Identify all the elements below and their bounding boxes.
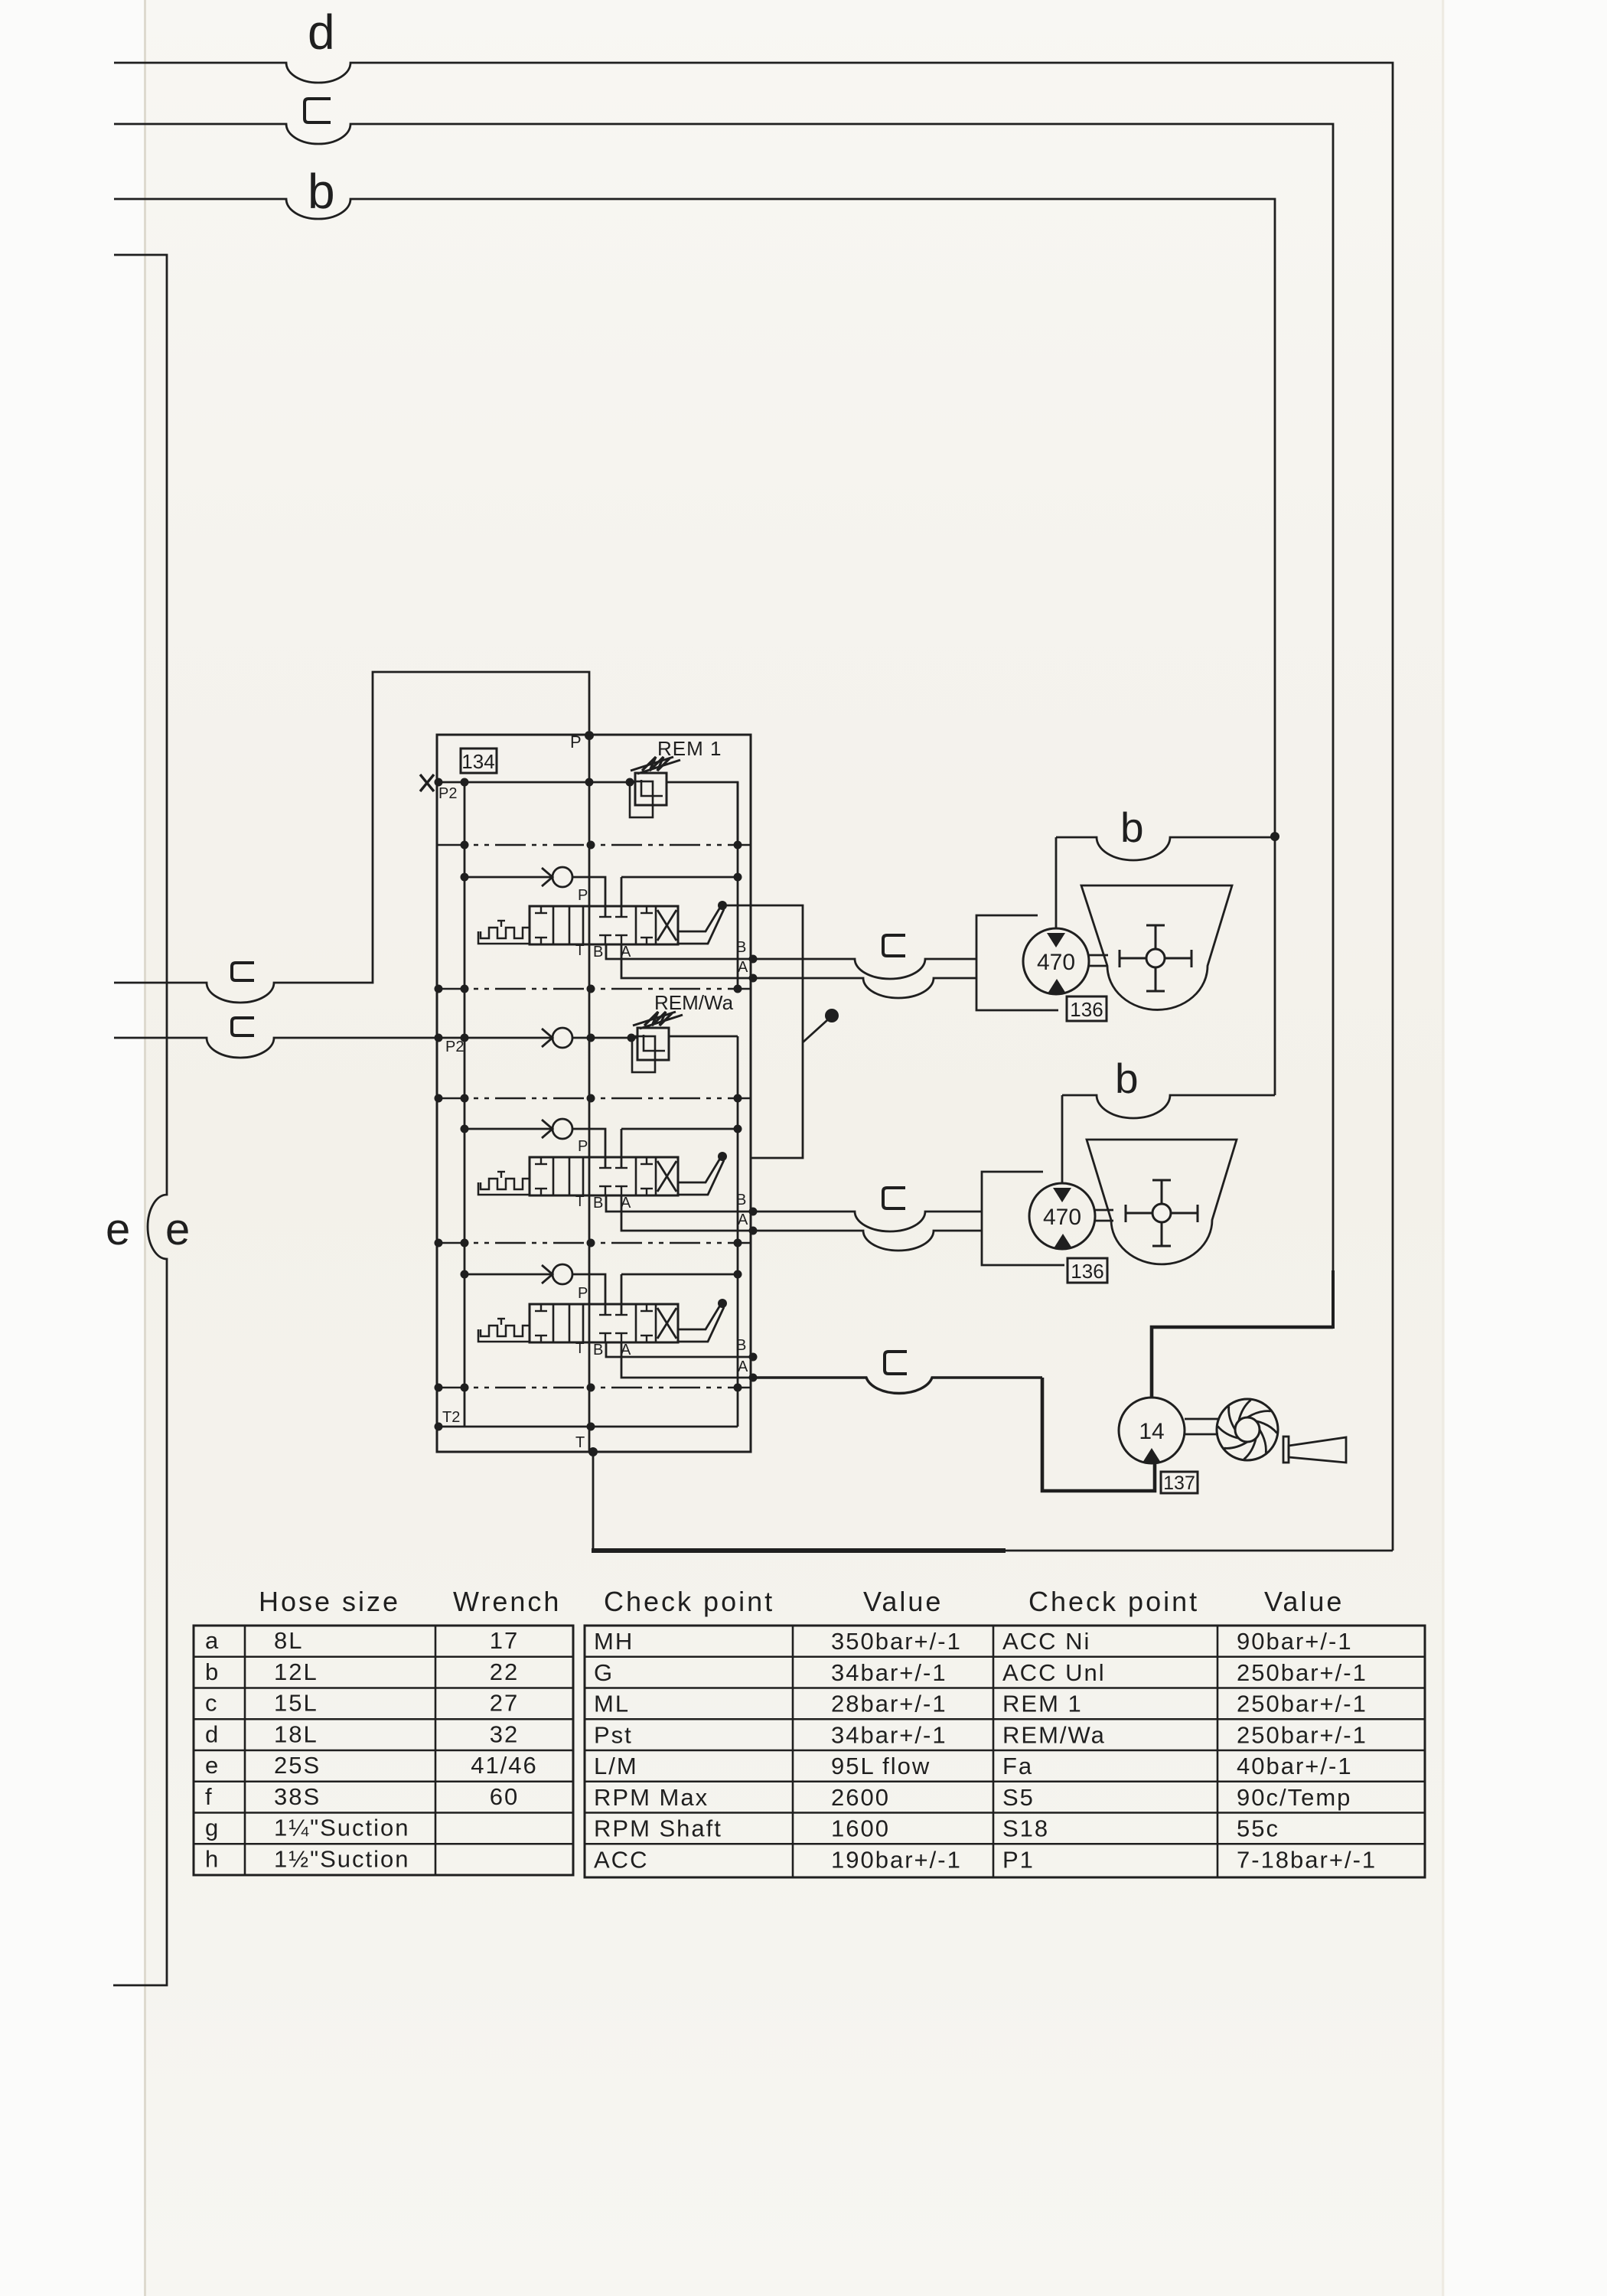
port P2 top, plugged (X symbol) — [420, 775, 434, 791]
svg-text:350bar+/-1: 350bar+/-1 — [831, 1628, 962, 1655]
section 3 work port A — [621, 1342, 753, 1378]
svg-text:T: T — [575, 1434, 585, 1451]
motor 1 shaft — [1089, 954, 1108, 957]
directional valve section 3 spool body — [530, 1304, 678, 1342]
svg-text:b: b — [308, 164, 335, 219]
wire: REM/Wa outlet to tank rail — [669, 1035, 738, 1038]
section 3 hand lever — [678, 1304, 721, 1329]
svg-text:G: G — [594, 1659, 614, 1686]
node P (block inlet) — [585, 731, 594, 740]
motor 2 mounting box — [982, 1172, 1064, 1265]
svg-text:Check point: Check point — [604, 1586, 774, 1617]
svg-text:134: 134 — [461, 750, 494, 773]
section 3 spool X position — [657, 1308, 676, 1339]
svg-text:Wrench: Wrench — [453, 1586, 561, 1617]
label c2 — [232, 1018, 254, 1035]
svg-text:137: 137 — [1163, 1473, 1195, 1494]
motor 1 axle cross — [1120, 957, 1191, 960]
svg-text:P: P — [578, 1285, 588, 1302]
hose to motor 1 (A) with crossing arc — [753, 978, 976, 998]
section 3 work port B — [606, 1342, 753, 1357]
svg-text:14: 14 — [1139, 1419, 1164, 1444]
svg-text:Pst: Pst — [594, 1721, 633, 1748]
svg-text:Value: Value — [863, 1586, 943, 1617]
svg-text:B: B — [736, 939, 746, 956]
svg-text:REM/Wa: REM/Wa — [1002, 1721, 1106, 1748]
svg-text:P1: P1 — [1002, 1846, 1035, 1873]
svg-text:S5: S5 — [1002, 1784, 1035, 1811]
section 1 work port A — [621, 944, 753, 978]
svg-text:90bar+/-1: 90bar+/-1 — [1237, 1628, 1353, 1655]
wire: tank return from valve T to right frame (suction thick part) — [592, 1452, 595, 1551]
svg-text:60: 60 — [490, 1783, 519, 1810]
section 1 hand lever — [678, 906, 721, 931]
svg-text:e: e — [205, 1752, 218, 1779]
REM/Wa spring/arrow adjuster — [633, 1012, 676, 1026]
section 1 spool X position — [657, 910, 676, 941]
svg-text:7-18bar+/-1: 7-18bar+/-1 — [1237, 1846, 1377, 1873]
label c1 — [232, 963, 254, 980]
svg-text:8L: 8L — [274, 1627, 303, 1654]
section 2 return spring — [481, 1179, 530, 1189]
svg-text:136: 136 — [1070, 998, 1103, 1021]
wire e (suction line, left frame) with loop arc — [113, 255, 167, 1985]
svg-text:A: A — [738, 959, 748, 976]
svg-text:Check point: Check point — [1028, 1586, 1199, 1617]
svg-text:e: e — [165, 1205, 190, 1254]
air blast cone — [1283, 1437, 1289, 1463]
pilot dash-dot rail 4 — [437, 1242, 750, 1244]
tank rail (vertical, right inner, upper segment) — [737, 782, 739, 989]
svg-text:f: f — [205, 1783, 212, 1810]
svg-text:T: T — [575, 943, 585, 959]
svg-text:470: 470 — [1043, 1205, 1081, 1230]
svg-text:P2: P2 — [438, 785, 457, 802]
wire c2: second pump supply hose to valve P2 with crossing arc — [114, 1038, 437, 1058]
svg-text:RPM Max: RPM Max — [594, 1784, 709, 1811]
wire: b hose of motor 2 with crossing arc — [1062, 1095, 1275, 1118]
svg-text:P: P — [570, 732, 582, 752]
svg-text:B: B — [593, 1195, 603, 1212]
section 2 work port B — [606, 1195, 753, 1212]
directional valve section 1: feed line with check valve — [464, 876, 552, 879]
svg-text:34bar+/-1: 34bar+/-1 — [831, 1721, 947, 1748]
svg-text:T: T — [575, 1194, 585, 1210]
linkage pivot lever with knob — [803, 1020, 827, 1042]
svg-text:a: a — [205, 1627, 219, 1654]
wire: section 3 tank pilot — [621, 1274, 738, 1315]
motor 1 mounting box — [976, 915, 1058, 1010]
wire: section 1 tank pilot — [621, 877, 738, 917]
label box 137 — [1161, 1472, 1198, 1493]
svg-text:250bar+/-1: 250bar+/-1 — [1237, 1659, 1367, 1686]
wire c1: pump supply hose to valve P with crossing arc — [114, 672, 589, 1003]
hose c to motor 2 (B) with crossing arc — [753, 1212, 982, 1231]
pilot dash-dot rail 1 — [437, 844, 750, 846]
section 2 hand lever — [678, 1157, 721, 1182]
label c (fan pump hose) — [885, 1352, 907, 1374]
motor 1 (470) — [1023, 928, 1089, 994]
hose c to fan pump with crossing arc (thick) — [753, 1378, 1042, 1393]
svg-text:RPM Shaft: RPM Shaft — [594, 1815, 722, 1842]
svg-text:MH: MH — [594, 1628, 634, 1655]
svg-text:L/M: L/M — [594, 1753, 638, 1779]
node: b junction — [1270, 832, 1279, 841]
wire: REM 1 outlet to tank rail — [667, 782, 738, 845]
svg-text:S18: S18 — [1002, 1815, 1049, 1842]
svg-text:ML: ML — [594, 1691, 630, 1717]
svg-text:B: B — [736, 1192, 746, 1208]
svg-text:15L: 15L — [274, 1690, 318, 1717]
motor 1 drive axle bell housing — [1081, 885, 1232, 1009]
label c (motor 1 hose) — [883, 935, 905, 956]
svg-text:12L: 12L — [274, 1658, 318, 1685]
wire: P2 top port line — [437, 781, 635, 784]
label c (motor 2 hose) — [883, 1188, 905, 1208]
wire: motor 1 case drain up to b line — [1055, 837, 1058, 928]
svg-text:B: B — [593, 1342, 603, 1358]
svg-text:55c: 55c — [1237, 1815, 1279, 1842]
directional valve section 2: feed line with check valve — [464, 1128, 552, 1130]
check valve on P2 line — [542, 1029, 553, 1047]
svg-text:95L flow: 95L flow — [831, 1753, 931, 1779]
wire b (case drain line) with hose crossing arc — [114, 199, 1275, 1095]
svg-text:B: B — [593, 944, 603, 960]
svg-text:Hose size: Hose size — [259, 1586, 400, 1617]
directional valve section 1 spool body — [530, 906, 678, 944]
tank rail (vertical, right inner, lower segment) — [737, 1036, 739, 1427]
section 3 return spring — [481, 1326, 530, 1336]
label c — [305, 99, 331, 122]
svg-text:P: P — [578, 1138, 588, 1155]
svg-text:1600: 1600 — [831, 1815, 890, 1842]
svg-text:Value: Value — [1264, 1586, 1344, 1617]
svg-text:136: 136 — [1071, 1260, 1103, 1283]
svg-text:18L: 18L — [274, 1720, 318, 1747]
svg-text:2600: 2600 — [831, 1784, 890, 1811]
directional valve section 2 spool body — [530, 1157, 678, 1195]
section 1 return spring — [481, 928, 530, 938]
pilot dash-dot rail 2 — [437, 988, 750, 990]
pilot dash-dot rail 3 — [437, 1097, 750, 1100]
svg-text:ACC Ni: ACC Ni — [1002, 1628, 1090, 1655]
svg-text:ACC: ACC — [594, 1846, 648, 1873]
directional valve section 3: feed line with check valve — [464, 1274, 552, 1276]
svg-text:d: d — [205, 1720, 218, 1747]
motor 2 drive axle bell housing — [1087, 1140, 1237, 1264]
section 2 spool X position — [657, 1161, 676, 1192]
svg-text:b: b — [1115, 1055, 1139, 1102]
hose to motor 2 (A) with crossing arc — [753, 1231, 982, 1251]
P rail (vertical supply gallery) — [588, 735, 591, 1452]
label box 134 — [461, 748, 497, 773]
label box 136 (motor 2) — [1068, 1258, 1107, 1283]
pilot dash-dot rail 5 — [437, 1387, 750, 1389]
svg-text:g: g — [205, 1815, 218, 1841]
svg-text:250bar+/-1: 250bar+/-1 — [1237, 1691, 1367, 1717]
svg-text:28bar+/-1: 28bar+/-1 — [831, 1691, 947, 1717]
svg-text:A: A — [738, 1212, 748, 1228]
section 2 work port A — [621, 1195, 753, 1231]
wire: section 2 tank pilot — [621, 1129, 738, 1168]
svg-text:ACC Unl: ACC Unl — [1002, 1659, 1106, 1686]
wire: b hose of motor 1 with crossing arc — [1056, 837, 1275, 860]
svg-text:REM/Wa: REM/Wa — [654, 991, 734, 1014]
wire: P2 line through check valve to REM/Wa — [437, 1037, 552, 1039]
svg-text:38S: 38S — [274, 1783, 321, 1810]
svg-text:REM 1: REM 1 — [657, 737, 722, 760]
svg-text:b: b — [205, 1658, 218, 1685]
wire: pump pressure line up and to c return (thick) — [1152, 1327, 1333, 1397]
svg-text:40bar+/-1: 40bar+/-1 — [1237, 1753, 1353, 1779]
svg-text:90c/Temp: 90c/Temp — [1237, 1784, 1351, 1811]
svg-text:B: B — [736, 1337, 746, 1354]
svg-text:REM 1: REM 1 — [1002, 1691, 1083, 1717]
svg-text:1¼"Suction: 1¼"Suction — [274, 1815, 410, 1841]
svg-text:T2: T2 — [442, 1409, 460, 1426]
fan drive pump (14) — [1119, 1397, 1185, 1463]
pump-fan shaft — [1185, 1418, 1218, 1420]
svg-text:27: 27 — [490, 1690, 519, 1717]
REM 1 spring/arrow adjuster — [631, 757, 673, 771]
svg-text:e: e — [106, 1205, 130, 1254]
motor 2 axle cross — [1126, 1212, 1198, 1215]
svg-text:c: c — [205, 1690, 217, 1717]
wire c (cooler return line) with hose crossing arc — [114, 124, 1333, 1274]
svg-text:470: 470 — [1037, 950, 1075, 975]
P2 rail (vertical pilot gallery, left) — [464, 782, 466, 1427]
hose c to motor 1 (B) with crossing arc — [753, 959, 976, 979]
svg-text:d: d — [308, 5, 335, 60]
fan impeller — [1217, 1399, 1278, 1460]
motor 2 shaft — [1095, 1209, 1113, 1212]
svg-text:P2: P2 — [445, 1039, 464, 1055]
svg-text:A: A — [738, 1358, 748, 1375]
svg-text:P: P — [578, 887, 588, 904]
label box 136 (motor 1) — [1067, 996, 1107, 1021]
svg-text:34bar+/-1: 34bar+/-1 — [831, 1659, 947, 1686]
port T2 line — [437, 1426, 738, 1428]
valve block outline — [437, 735, 751, 1452]
svg-text:250bar+/-1: 250bar+/-1 — [1237, 1721, 1367, 1748]
svg-text:T: T — [575, 1341, 585, 1357]
svg-text:25S: 25S — [274, 1752, 321, 1779]
svg-text:22: 22 — [490, 1658, 519, 1685]
svg-text:b: b — [1120, 804, 1144, 851]
svg-text:h: h — [205, 1845, 218, 1872]
svg-text:17: 17 — [490, 1627, 519, 1654]
section 1 work port B — [606, 944, 753, 959]
svg-text:Fa: Fa — [1002, 1753, 1033, 1779]
motor 2 (470) — [1029, 1183, 1095, 1249]
svg-text:41/46: 41/46 — [471, 1752, 538, 1779]
svg-text:32: 32 — [490, 1720, 519, 1747]
svg-text:190bar+/-1: 190bar+/-1 — [831, 1846, 962, 1873]
svg-text:1½"Suction: 1½"Suction — [274, 1845, 410, 1872]
wire: motor 2 case drain up to b line — [1061, 1095, 1064, 1183]
wire d (return line, top) with hose crossing arc — [114, 63, 1393, 1551]
mechanical linkage between levers of sections 1 and 2 — [722, 905, 803, 1158]
